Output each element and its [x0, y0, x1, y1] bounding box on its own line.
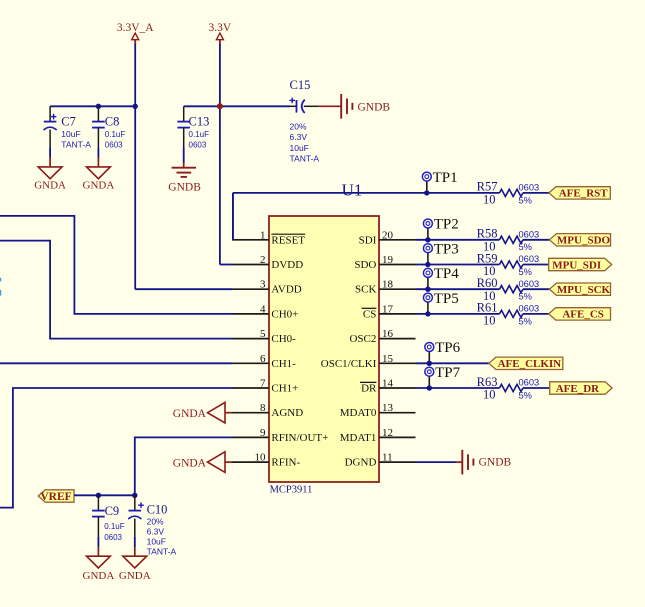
svg-text:10: 10	[483, 193, 496, 207]
svg-text:3: 3	[260, 279, 266, 291]
test point TP4	[423, 266, 459, 289]
svg-text:4: 4	[260, 303, 266, 315]
svg-text:GNDA: GNDA	[173, 408, 207, 420]
svg-text:TANT-A: TANT-A	[61, 139, 91, 149]
svg-text:TP3: TP3	[434, 241, 459, 257]
svg-text:C8: C8	[105, 115, 120, 129]
wire AFE_RST net left segment	[233, 192, 500, 194]
wire MPU_SDO net right segment	[523, 239, 550, 241]
svg-text:TP5: TP5	[434, 291, 459, 307]
resistor R61	[477, 301, 540, 328]
svg-text:5: 5	[260, 328, 266, 340]
node junction TP1	[424, 190, 429, 195]
ground GNDA (C7)	[34, 158, 66, 192]
svg-text:0.1uF: 0.1uF	[105, 130, 126, 139]
svg-text:8: 8	[260, 402, 266, 414]
svg-text:SCK: SCK	[355, 284, 376, 296]
svg-text:14: 14	[382, 378, 394, 390]
ground GNDB (DGND)	[456, 450, 512, 475]
wire AFE_CS net left segment	[416, 313, 500, 315]
svg-text:0603: 0603	[519, 378, 540, 388]
pin 16 OSC2	[349, 328, 415, 345]
port AFE_RST	[549, 187, 610, 199]
svg-text:MPU_SCK: MPU_SCK	[557, 284, 611, 296]
svg-text:C10: C10	[147, 503, 168, 517]
svg-text:TP7: TP7	[435, 365, 461, 381]
svg-text:5%: 5%	[519, 390, 532, 400]
svg-text:GNDA: GNDA	[173, 457, 207, 469]
svg-text:TP1: TP1	[433, 170, 458, 186]
svg-text:7: 7	[260, 378, 266, 390]
svg-text:GNDB: GNDB	[168, 181, 201, 193]
svg-text:2: 2	[260, 254, 266, 266]
ground GNDB (C13)	[168, 163, 201, 194]
ground GNDA (C10)	[119, 547, 151, 582]
pin 4 CH0+	[232, 303, 298, 320]
pin 15 OSC1/CLKI	[321, 353, 416, 370]
wire 3.3V vertical rail	[219, 44, 221, 265]
wire CH0- net	[0, 241, 232, 339]
port AFE_DR	[550, 382, 612, 394]
node cut-off label fragment bottom	[0, 290, 1, 296]
node junction C8 rail	[96, 104, 101, 109]
svg-text:DR: DR	[361, 383, 377, 395]
port AFE_CLKIN	[489, 357, 563, 369]
wire AFE_RST net right segment	[523, 192, 549, 194]
svg-text:0603: 0603	[519, 279, 540, 289]
svg-text:5%: 5%	[519, 195, 532, 205]
resistor R57	[477, 180, 540, 207]
svg-text:0603: 0603	[519, 254, 540, 264]
svg-text:U1: U1	[342, 180, 363, 199]
wire CH0+ net	[0, 216, 232, 314]
pin 19 SDO	[354, 254, 415, 271]
svg-text:RFIN/OUT+: RFIN/OUT+	[271, 432, 328, 444]
svg-text:MCP3911: MCP3911	[270, 485, 313, 496]
op-amp U1 MCP3911 body	[269, 180, 379, 495]
node junction TP6	[427, 361, 432, 366]
svg-text:5%: 5%	[519, 316, 532, 326]
port MPU_SCK	[550, 283, 611, 295]
ground GNDB (C15)	[318, 94, 390, 119]
capacitor C7	[44, 106, 92, 157]
svg-text:15: 15	[382, 353, 394, 365]
svg-text:VREF: VREF	[40, 491, 71, 503]
node junction 3.3V_A rail	[133, 104, 138, 109]
svg-text:5%: 5%	[519, 267, 532, 277]
pin 9 RFIN/OUT+	[232, 427, 328, 444]
port AFE_CS	[549, 308, 611, 320]
capacitor C15	[289, 78, 319, 164]
power port 3.3V	[209, 22, 232, 45]
test point TP6	[425, 340, 461, 363]
pin 14 DR	[360, 378, 416, 395]
svg-text:CH1+: CH1+	[271, 383, 298, 395]
svg-text:TANT-A: TANT-A	[147, 547, 177, 557]
svg-text:12: 12	[382, 427, 393, 439]
svg-text:10: 10	[255, 452, 267, 464]
wire VREF rail	[74, 494, 135, 496]
svg-text:0603: 0603	[189, 140, 207, 149]
power port GNDA (RFIN-)	[173, 452, 232, 473]
wire CH1- net	[0, 362, 232, 364]
svg-text:RESET: RESET	[271, 234, 305, 246]
capacitor C10	[128, 495, 176, 556]
svg-text:AFE_CS: AFE_CS	[562, 309, 604, 321]
svg-text:MDAT1: MDAT1	[340, 432, 377, 444]
node junction TP3	[425, 262, 430, 267]
pin 18 SCK	[355, 279, 416, 296]
wire MPU_SCK net right segment	[523, 288, 550, 290]
svg-text:9: 9	[260, 427, 266, 439]
svg-text:TP2: TP2	[434, 217, 459, 233]
pin 2 DVDD	[232, 254, 303, 271]
pin 17 CS	[362, 303, 416, 320]
svg-text:GNDA: GNDA	[83, 570, 115, 582]
svg-text:13: 13	[382, 402, 394, 414]
svg-text:1: 1	[260, 229, 266, 241]
svg-text:0603: 0603	[104, 533, 122, 542]
svg-text:MPU_SDI: MPU_SDI	[552, 259, 601, 271]
svg-text:16: 16	[382, 328, 394, 340]
ground GNDA (C8)	[83, 158, 115, 192]
ground GNDA (C9)	[83, 547, 115, 582]
svg-text:C9: C9	[105, 504, 120, 518]
svg-text:GNDB: GNDB	[479, 457, 512, 469]
svg-text:0603: 0603	[105, 140, 123, 149]
wire MPU_SDI net left segment	[416, 264, 500, 266]
svg-text:AVDD: AVDD	[271, 284, 301, 296]
svg-text:AGND: AGND	[271, 407, 303, 419]
svg-text:SDI: SDI	[359, 234, 377, 246]
svg-text:19: 19	[382, 254, 394, 266]
svg-text:TANT-A: TANT-A	[290, 154, 320, 164]
wire C7-C8 top rail	[50, 105, 135, 107]
svg-text:0603: 0603	[519, 229, 540, 239]
svg-text:6.3V: 6.3V	[147, 526, 165, 536]
svg-text:20: 20	[382, 229, 394, 241]
capacitor C13	[177, 106, 209, 162]
resistor R59	[477, 251, 540, 278]
svg-text:MPU_SDO: MPU_SDO	[557, 235, 611, 247]
wire MPU_SDO net left segment	[416, 239, 500, 241]
wire RFIN/OUT+ to VREF rail	[135, 437, 232, 495]
svg-text:CH0-: CH0-	[271, 333, 296, 345]
pin 13 MDAT0	[340, 402, 416, 419]
svg-text:0603: 0603	[519, 304, 540, 314]
svg-text:5%: 5%	[519, 292, 532, 302]
port MPU_SDI	[549, 258, 612, 270]
svg-text:5%: 5%	[519, 242, 532, 252]
port MPU_SDO	[550, 234, 611, 246]
svg-text:GNDA: GNDA	[34, 180, 66, 192]
wire AVDD to 3.3V_A rail	[135, 288, 232, 290]
svg-text:TP6: TP6	[435, 340, 461, 356]
svg-text:10uF: 10uF	[290, 143, 309, 153]
svg-text:17: 17	[382, 303, 394, 315]
resistor R58	[477, 227, 540, 254]
pin 1 RESET	[232, 229, 305, 246]
svg-text:10: 10	[483, 314, 496, 328]
svg-text:GNDA: GNDA	[119, 570, 151, 582]
svg-text:10uF: 10uF	[147, 536, 166, 546]
svg-text:10: 10	[483, 388, 496, 402]
svg-text:GNDB: GNDB	[358, 102, 391, 114]
capacitor C9	[92, 495, 125, 547]
svg-text:0.1uF: 0.1uF	[104, 522, 125, 531]
pin 6 CH1-	[232, 353, 296, 370]
svg-text:0603: 0603	[519, 183, 540, 193]
svg-text:6: 6	[260, 353, 266, 365]
svg-text:11: 11	[382, 452, 393, 464]
pin 7 CH1+	[232, 378, 298, 395]
svg-text:18: 18	[382, 279, 394, 291]
svg-text:6.3V: 6.3V	[290, 132, 308, 142]
svg-text:CH0+: CH0+	[271, 308, 298, 320]
svg-text:TP4: TP4	[434, 266, 460, 282]
svg-text:OSC2: OSC2	[349, 333, 376, 345]
svg-text:DVDD: DVDD	[271, 259, 303, 271]
power port GNDA (AGND)	[173, 402, 232, 423]
wire MPU_SCK net left segment	[416, 288, 500, 290]
test point TP3	[423, 241, 458, 264]
test point TP1	[422, 170, 457, 193]
pin 5 CH0-	[232, 328, 296, 345]
pin 12 MDAT1	[340, 427, 416, 444]
svg-text:OSC1/CLKI: OSC1/CLKI	[321, 358, 377, 370]
node cut-off label fragment top	[0, 278, 1, 282]
wire AFE_CLKIN net	[416, 362, 489, 364]
test point TP2	[423, 217, 458, 240]
wire CH1+ net	[0, 388, 232, 508]
svg-text:3.3V: 3.3V	[209, 22, 232, 34]
wire DGND net	[416, 461, 457, 463]
test point TP7	[425, 365, 461, 388]
node junction TP2	[425, 237, 430, 242]
port VREF	[38, 490, 74, 502]
pin 8 AGND	[232, 402, 303, 419]
wire AFE_DR net right segment	[523, 387, 550, 389]
svg-text:3.3V_A: 3.3V_A	[117, 22, 154, 34]
pin 20 SDI	[359, 229, 416, 246]
svg-text:AFE_DR: AFE_DR	[556, 383, 600, 395]
node junction TP7	[427, 385, 432, 390]
resistor R60	[477, 276, 540, 303]
wire AFE_DR net left segment	[416, 387, 500, 389]
wire RESET net vertical	[232, 193, 234, 240]
svg-text:RFIN-: RFIN-	[271, 457, 300, 469]
svg-text:MDAT0: MDAT0	[340, 407, 377, 419]
test point TP5	[423, 291, 458, 314]
capacitor C8	[92, 106, 125, 157]
wire MPU_SDI net right segment	[523, 264, 549, 266]
svg-text:GNDA: GNDA	[83, 180, 115, 192]
resistor R63	[477, 375, 540, 402]
pin 11 DGND	[345, 452, 416, 469]
svg-text:0.1uF: 0.1uF	[189, 130, 210, 139]
node junction C10	[132, 493, 137, 498]
svg-text:CH1-: CH1-	[271, 358, 296, 370]
wire C13-C15 top rail	[184, 105, 290, 107]
svg-text:CS: CS	[363, 308, 376, 320]
svg-text:SDO: SDO	[354, 259, 376, 271]
svg-text:C15: C15	[290, 78, 311, 92]
svg-text:20%: 20%	[147, 516, 164, 526]
pin 10 RFIN-	[232, 452, 300, 469]
wire AFE_CS net right segment	[523, 313, 549, 315]
svg-text:AFE_RST: AFE_RST	[559, 188, 609, 200]
svg-text:20%: 20%	[290, 121, 307, 131]
node junction TP5	[425, 311, 430, 316]
wire DVDD to 3.3V rail	[220, 264, 232, 266]
pin 3 AVDD	[232, 279, 302, 296]
svg-text:AFE_CLKIN: AFE_CLKIN	[498, 358, 562, 370]
svg-text:C7: C7	[61, 115, 76, 129]
node junction C9	[96, 493, 101, 498]
node junction 3.3V rail (4-way)	[217, 103, 223, 109]
svg-text:DGND: DGND	[345, 457, 377, 469]
node junction TP4	[425, 287, 430, 292]
wire 3.3V_A vertical rail	[134, 44, 136, 289]
svg-text:10uF: 10uF	[61, 129, 80, 139]
svg-text:C13: C13	[189, 115, 210, 129]
power port 3.3V_A	[117, 22, 154, 45]
